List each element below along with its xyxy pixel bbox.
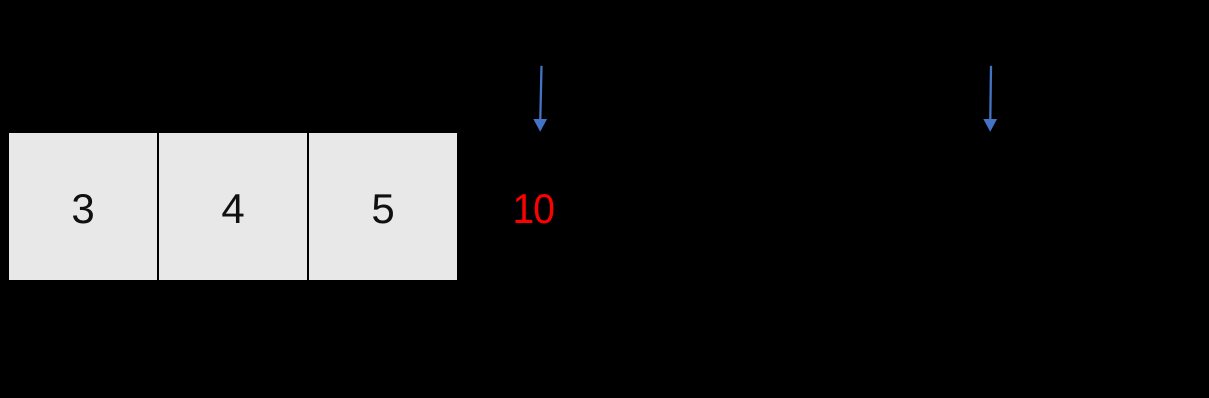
pointer arrow 1 (blue, down): [528, 60, 554, 136]
target value 10 (red): [512, 186, 551, 231]
array cell value 5: [309, 133, 457, 280]
pointer arrow 2 (blue, down): [978, 60, 1004, 136]
array cell value 4: [159, 133, 307, 280]
array cell value 3: [9, 133, 157, 280]
